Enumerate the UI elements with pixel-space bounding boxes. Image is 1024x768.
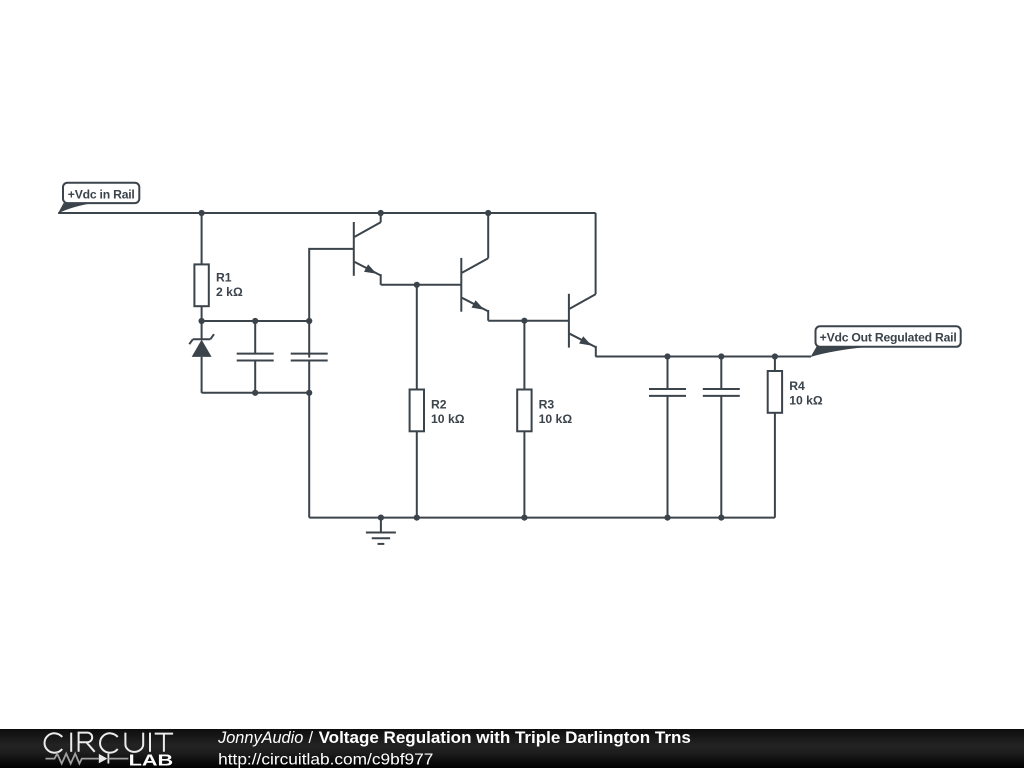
footer title [319,729,691,747]
wire Q2 collector [487,213,489,258]
label R3 10 kOhm [539,398,573,426]
wire R4 bottom lead [774,413,776,518]
svg-text:http://circuitlab.com/c9bf977: http://circuitlab.com/c9bf977 [218,751,433,768]
node dot R2 top [414,282,420,288]
node dot C3 top [664,353,670,359]
wire R2 bottom lead [416,431,418,517]
wire R2 top lead [416,285,418,390]
node dot top rail Q1 collector [378,210,384,216]
wire C2 bottom through to ground rail [308,361,310,518]
wire R1 top lead [201,213,203,264]
footer author [217,729,303,747]
resistor R2 [410,390,424,432]
node dot C1 top [252,318,258,324]
footer url [218,751,433,768]
wire R1 bottom lead [201,306,203,321]
svg-text:/: / [309,729,314,747]
node dot C1 bottom [252,390,258,396]
svg-text:+Vdc Out Regulated Rail: +Vdc Out Regulated Rail [820,330,957,344]
svg-text:R3: R3 [539,398,555,412]
footer separator [309,729,314,747]
wire top rail [58,212,596,214]
label +Vdc in Rail [68,187,135,201]
transistor Q2 [461,258,488,321]
wire ground rail [309,517,775,519]
capacitor C3 [649,357,686,518]
node dot R2 bottom [414,515,420,521]
CircuitLab logo word CIRCUIT [45,733,174,753]
svg-text:R4: R4 [789,379,805,393]
node dot C2 top [306,318,312,324]
zener diode D1 [189,321,214,393]
flag +Vdc Out Regulated Rail [811,326,961,357]
node dot R4 top [772,353,778,359]
svg-text:R1: R1 [216,271,232,285]
CircuitLab logo word LAB [129,753,174,768]
svg-text:LAB: LAB [129,753,174,768]
label +Vdc Out Regulated Rail [820,330,957,344]
wire Q1 emitter to Q2 base [381,284,462,286]
node dot C4 bottom [718,515,724,521]
svg-text:R2: R2 [431,398,447,412]
wire R3 top lead [523,321,525,390]
transistor Q1 [354,222,381,285]
wire Q2 emitter to Q3 base [488,320,569,322]
node dot C4 top [718,353,724,359]
wire reference bottom horizontal [202,392,310,394]
wire R4 top lead [774,357,776,372]
node dot ground stub [378,515,384,521]
resistor R4 [768,371,782,413]
label R1 2 kOhm [216,271,243,299]
capacitor C4 [703,357,740,518]
ground symbol [366,518,396,544]
label R2 10 kOhm [431,398,465,426]
wire output rail [596,356,811,358]
wire Q3 collector [595,213,597,294]
svg-text:10 kΩ: 10 kΩ [539,412,573,426]
wire R3 bottom lead [523,431,525,517]
node dot R3 bottom [521,515,527,521]
resistor R3 [517,390,531,432]
CircuitLab logo resistor-diode squiggle [46,754,129,764]
capacitor C1 [237,321,274,393]
wire Q1 base feed [309,249,354,358]
wire reference node horizontal [202,320,310,322]
label R4 10 kOhm [789,379,823,407]
flag +Vdc in Rail [58,183,139,214]
svg-text:10 kΩ: 10 kΩ [789,394,823,408]
resistor R1 [194,264,208,306]
node dot C2 bottom [306,390,312,396]
transistor Q3 [569,294,596,357]
node dot C3 bottom [664,515,670,521]
svg-text:JonnyAudio: JonnyAudio [217,729,303,747]
svg-text:Voltage Regulation with Triple: Voltage Regulation with Triple Darlingto… [319,729,691,747]
capacitor C2 [291,354,328,361]
node dot top rail R1 [199,210,205,216]
footer bar background [0,729,1024,768]
node dot R3 top [521,318,527,324]
svg-text:10 kΩ: 10 kΩ [431,412,465,426]
svg-text:+Vdc in Rail: +Vdc in Rail [68,187,135,201]
wire Q1 collector [380,213,382,222]
svg-text:2 kΩ: 2 kΩ [216,285,243,299]
node dot zener top [199,318,205,324]
node dot top rail Q2 collector [485,210,491,216]
